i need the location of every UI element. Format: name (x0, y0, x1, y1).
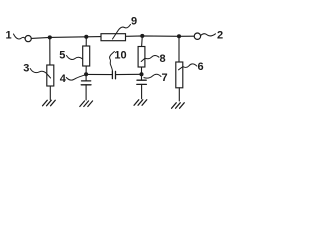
ground (below capacitor 4) (80, 101, 93, 107)
ground (below capacitor 7) (134, 100, 147, 106)
capacitor 10 (112, 71, 115, 79)
resistor 8 (138, 47, 145, 68)
leader 4 (66, 75, 84, 80)
resistor 5 (83, 46, 90, 66)
wire resistor 6 to ground (178, 88, 180, 101)
svg-text:6: 6 (198, 61, 204, 73)
svg-text:3: 3 (23, 63, 29, 75)
terminal 2 (194, 33, 200, 39)
ground (below resistor 6) (172, 103, 185, 109)
svg-text:7: 7 (162, 72, 168, 84)
wire resistor 3 to ground (49, 86, 51, 100)
resistor 3 (47, 65, 54, 86)
wire bus right of box 9 (126, 35, 195, 37)
svg-text:10: 10 (114, 50, 126, 62)
leader 6 (179, 64, 197, 70)
leader 9 (113, 24, 131, 39)
leader 5 (67, 56, 83, 60)
leader 7 (144, 74, 161, 78)
node A (junction dot) (48, 35, 52, 39)
leader 1 (14, 34, 26, 39)
wire capacitor 4 to ground (85, 85, 87, 100)
svg-text:8: 8 (160, 53, 166, 65)
capacitor 7 (137, 80, 147, 84)
capacitor 4 (81, 81, 91, 85)
svg-text:9: 9 (131, 15, 137, 27)
node D (junction dot) (177, 34, 181, 38)
node E (junction dot) (84, 72, 88, 76)
wire branch to resistor 8 (141, 36, 144, 47)
svg-text:2: 2 (217, 30, 223, 42)
leader 2 (201, 34, 216, 36)
wire branch to resistor 6 (178, 36, 180, 62)
leader 3 (30, 69, 50, 79)
wire resistor 5 to node E (85, 66, 87, 74)
wire resistor 8 to node F (141, 67, 143, 74)
svg-text:5: 5 (59, 50, 65, 62)
wire capacitor 7 to ground (141, 84, 143, 98)
node C (junction dot) (140, 34, 144, 38)
wire node F to capacitor 7 (141, 74, 143, 80)
terminal 1 (25, 36, 31, 42)
wire node E to capacitor 10 (86, 73, 112, 75)
wire capacitor 10 to node F (116, 73, 142, 75)
ground (below resistor 3) (43, 100, 56, 106)
svg-text:1: 1 (6, 30, 12, 42)
resistor 6 (176, 62, 183, 88)
wire node E to capacitor 4 (85, 74, 87, 80)
node B (junction dot) (84, 35, 88, 39)
wire main bus (31, 37, 101, 39)
svg-text:4: 4 (60, 73, 67, 85)
leader 8 (141, 56, 159, 62)
wire branch to resistor 3 (49, 37, 51, 65)
node F (junction dot) (139, 72, 143, 76)
resistor 9 (series box on bus) (101, 34, 126, 41)
wire branch to resistor 5 (85, 37, 87, 46)
leader 10 (110, 52, 115, 71)
